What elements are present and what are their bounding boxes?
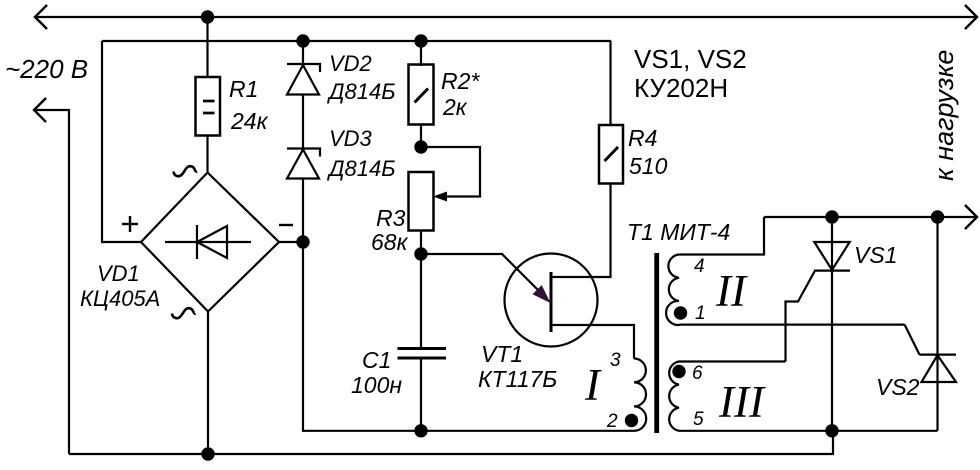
wiper arrowhead bbox=[433, 192, 447, 202]
wire input 2 with arrow bbox=[34, 98, 46, 122]
terminal arrow right to load 1 bbox=[965, 5, 977, 29]
svg-text:VD1: VD1 bbox=[97, 261, 140, 286]
potentiometer R3 bbox=[409, 147, 481, 231]
resistor R2 bbox=[409, 65, 434, 125]
svg-text:R1: R1 bbox=[229, 76, 258, 102]
svg-text:Т1 МИТ-4: Т1 МИТ-4 bbox=[627, 219, 730, 245]
wire R1 top bbox=[206, 17, 208, 77]
junction bridge minus / zener column bbox=[296, 235, 309, 248]
minus sign bbox=[279, 224, 293, 226]
svg-text:КТ117Б: КТ117Б bbox=[478, 366, 557, 392]
wire top rail (input/load common) bbox=[35, 16, 977, 18]
pin 1 polarity dot bbox=[674, 306, 687, 319]
pin 2 polarity dot bbox=[625, 414, 638, 427]
junction R2 / R3 / wiper bbox=[414, 140, 427, 153]
zener diode VD2 bbox=[287, 64, 320, 95]
wire R2-R3 bbox=[420, 125, 422, 147]
thyristor VS1 bbox=[786, 217, 851, 431]
svg-text:R4: R4 bbox=[628, 125, 657, 151]
wire zener column to bottom bbox=[303, 242, 634, 431]
resistor R1 bbox=[196, 77, 221, 136]
svg-text:5: 5 bbox=[693, 409, 704, 430]
junction bridge / bottom rail bbox=[201, 447, 214, 460]
capacitor C1 bbox=[398, 349, 447, 359]
base1 wire bbox=[551, 325, 634, 359]
svg-text:VS1, VS2: VS1, VS2 bbox=[634, 44, 747, 74]
svg-text:2: 2 bbox=[606, 411, 618, 432]
svg-text:~220 В: ~220 В bbox=[5, 54, 88, 84]
wire C1 column bbox=[420, 254, 422, 348]
wire output rail y217 with arrow bbox=[764, 205, 977, 229]
transformer T1 core bbox=[654, 253, 659, 433]
wire bridge right vertex bbox=[279, 241, 303, 243]
junction VS2 cathode / output rail bbox=[931, 210, 944, 223]
transistor VT1 (unijunction) bbox=[421, 184, 634, 359]
plus sign bbox=[122, 216, 293, 232]
VS2 gate wire bbox=[905, 325, 920, 355]
winding III bbox=[669, 362, 937, 431]
junction VS1 cathode / bottom node bbox=[825, 424, 838, 437]
svg-text:КУ202Н: КУ202Н bbox=[634, 73, 728, 103]
junction rail2 / R2 bbox=[414, 34, 427, 47]
svg-text:VS1: VS1 bbox=[854, 242, 897, 268]
bridge rectifier VD1 bbox=[141, 166, 279, 318]
svg-text:2к: 2к bbox=[442, 94, 468, 120]
svg-text:VD3: VD3 bbox=[329, 126, 373, 151]
svg-text:Д814Б: Д814Б bbox=[326, 79, 396, 104]
svg-text:R3: R3 bbox=[376, 205, 406, 231]
thyristor VS2 bbox=[905, 217, 956, 431]
junction rail2 / VD2 bbox=[296, 34, 309, 47]
svg-text:Д814Б: Д814Б bbox=[326, 156, 396, 181]
svg-text:1: 1 bbox=[695, 303, 706, 324]
wire R3 bottom bbox=[420, 231, 422, 255]
junction VS1 anode / output rail bbox=[825, 210, 838, 223]
wire R2 top bbox=[420, 41, 422, 66]
winding I bbox=[634, 359, 646, 431]
svg-text:510: 510 bbox=[629, 153, 668, 179]
emitter arrowhead bbox=[533, 285, 551, 303]
svg-text:6: 6 bbox=[692, 363, 703, 384]
svg-text:VD2: VD2 bbox=[329, 51, 372, 76]
svg-text:I: I bbox=[584, 360, 602, 410]
svg-text:III: III bbox=[718, 377, 766, 427]
svg-text:VS2: VS2 bbox=[876, 374, 920, 400]
svg-text:24к: 24к bbox=[230, 108, 269, 134]
svg-text:4: 4 bbox=[694, 256, 705, 277]
wire zener column bbox=[302, 41, 304, 64]
wire node A column bbox=[102, 41, 141, 242]
wire R1 bottom to bridge bbox=[206, 136, 208, 174]
junction top rail / R1 bbox=[201, 10, 214, 23]
junction C1 / bottom wire bbox=[414, 424, 427, 437]
svg-text:II: II bbox=[715, 266, 748, 316]
winding II bbox=[666, 217, 905, 325]
svg-text:VT1: VT1 bbox=[481, 341, 523, 367]
pin 6 polarity dot bbox=[672, 365, 685, 378]
wire bridge bottom column bbox=[207, 312, 209, 455]
base2 wire bbox=[551, 184, 611, 278]
zener diode VD3 bbox=[287, 149, 320, 179]
svg-text:R2*: R2* bbox=[441, 68, 480, 94]
resistor R4 bbox=[599, 41, 623, 184]
VS1 gate wire bbox=[786, 272, 815, 362]
svg-text:100н: 100н bbox=[351, 372, 402, 398]
junction R3 / emitter / C1 bbox=[414, 247, 427, 260]
wiper wire bbox=[421, 147, 480, 197]
emitter wire bbox=[421, 254, 548, 300]
svg-text:3: 3 bbox=[610, 350, 621, 371]
svg-text:С1: С1 bbox=[362, 347, 391, 373]
wire bottom rail bbox=[69, 431, 833, 454]
terminal arrow left input 1 bbox=[35, 5, 47, 29]
wire rail 2 (bridge left vertex to R4 top) bbox=[102, 40, 611, 42]
svg-text:68к: 68к bbox=[371, 229, 409, 255]
svg-text:КЦ405А: КЦ405А bbox=[80, 286, 160, 311]
svg-text:к нагрузке: к нагрузке bbox=[929, 50, 959, 181]
